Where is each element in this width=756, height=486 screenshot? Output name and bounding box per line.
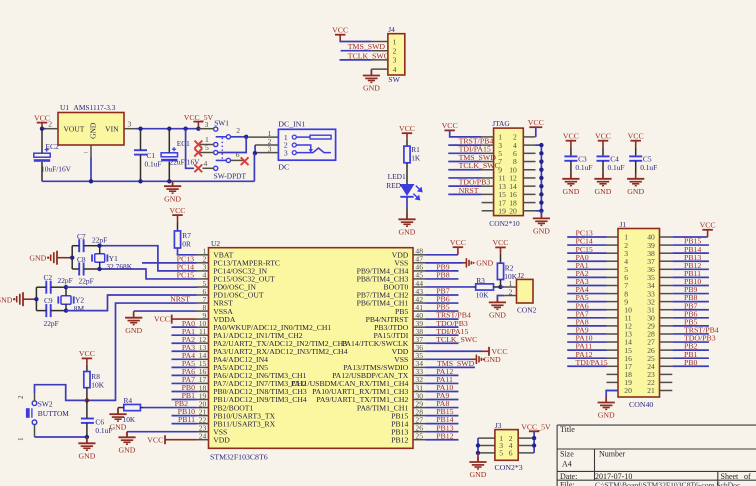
svg-text:6: 6 [509, 449, 513, 458]
J1 pin 31 [660, 309, 673, 311]
node J3 left bus pin3 [476, 443, 480, 447]
J1 pin 26 [660, 349, 673, 351]
node JTAG bus row 9 [539, 200, 543, 204]
U2 pin 29 (PA8/TIM1_CH1) [413, 407, 426, 409]
JTAG pin 2 stub [523, 136, 535, 138]
wire PC13 (J1) [567, 236, 606, 238]
wire PB10 (J1) [672, 284, 709, 286]
J1 pin 18 [607, 373, 619, 375]
wire J4 pin 4 to ground [370, 69, 372, 75]
svg-text:2017-07-10: 2017-07-10 [595, 472, 632, 481]
J4 pin 3 [371, 59, 388, 61]
svg-text:TCLK_SWC: TCLK_SWC [459, 161, 500, 170]
J1 pin 1 [607, 236, 619, 238]
wire JTAG ground bus [536, 145, 542, 211]
svg-text:VDD: VDD [213, 435, 230, 444]
node JTAG bus row 2 [539, 143, 543, 147]
wire DC+ to contact 5 [218, 137, 246, 153]
svg-text:VCC: VCC [628, 132, 644, 141]
U2 pin 13 (PA3/UART2_RX/ADC12_IN3/TIM2_CH4) [197, 350, 209, 352]
U2 pin 39 (PB3/JTDO) [413, 326, 426, 328]
svg-text:2: 2 [48, 119, 52, 128]
wire U2 pin 35 (VSS) to ground [426, 358, 472, 360]
svg-text:3: 3 [284, 148, 288, 157]
U2 pin 44 (BOOT0) [413, 286, 426, 288]
wire PC13 [142, 262, 197, 264]
svg-text:0.1uF: 0.1uF [575, 163, 592, 172]
J1 pin 34 [660, 285, 673, 287]
U2 pin 46 (PB9/TIM4_CH4) [413, 270, 426, 272]
SW2 bottom pin lead [34, 425, 36, 437]
ground (VSS) [126, 432, 128, 438]
svg-text:VCC: VCC [442, 121, 458, 130]
U2 pin 1 (VBAT) [197, 254, 209, 256]
svg-text:10uF/16V: 10uF/16V [41, 164, 72, 173]
node EC1 bottom junction [167, 179, 171, 183]
wire Y2 left rail [35, 287, 37, 310]
U1 GND pin stub [90, 145, 92, 157]
wire R1 to LED1 [406, 163, 408, 184]
U2 pin 3 (PC14/OSC32_IN) [197, 270, 209, 272]
J1 pin 8 [607, 293, 619, 295]
wire PB9 (J1) [672, 293, 709, 295]
wire JTAG left row 4 [448, 161, 481, 163]
U2 pin 19 (PB1/ADC12_IN9/TIM3_CH4) [197, 399, 209, 401]
SW1 common 6 [226, 158, 230, 162]
wire PA11 (J1) [567, 349, 606, 351]
wire PB6 (J1) [672, 317, 709, 319]
U2 pin 48 (VDD) [413, 254, 426, 256]
J1 pin 29 [660, 325, 673, 327]
wire J3 right bus [533, 431, 535, 453]
svg-text:GND: GND [88, 122, 97, 139]
wire PA0 (J1) [567, 260, 606, 262]
svg-text:GND: GND [476, 259, 493, 268]
svg-text:32.768K: 32.768K [106, 262, 132, 271]
svg-text:GND: GND [595, 187, 612, 196]
wire PB9 (U2 right) [426, 270, 459, 272]
node SW feed junction [183, 127, 187, 131]
svg-text:VCC: VCC [332, 26, 348, 35]
wire PC14 (J1) [567, 244, 606, 246]
svg-text:GND: GND [125, 326, 142, 335]
SW1 mechanical link (dotted) [221, 139, 223, 159]
U2 pin 38 (PA15/JTDI) [413, 334, 426, 336]
svg-text:U2: U2 [211, 239, 220, 248]
svg-text:C8: C8 [77, 255, 86, 264]
J1 pin 38 [660, 252, 673, 254]
wire TRST/PB4 (U2 right) [426, 318, 459, 320]
wire C3 to ground [570, 161, 572, 179]
U2 pin 2 (PC13/TAMPER-RTC) [197, 262, 209, 264]
wire R3 leads [473, 286, 476, 288]
wire VCC to J4 pin 1 [340, 40, 371, 42]
wire TRST/PB4 (J1) [672, 333, 709, 335]
svg-text:VCC: VCC [700, 221, 716, 230]
svg-text:J3: J3 [495, 421, 502, 430]
wire PA7 [172, 382, 197, 384]
U2 pin 17 (PA7/ADC12_IN7/TIM3_CH2) [197, 382, 209, 384]
wire EC2 bottom lead [41, 162, 43, 182]
svg-text:VCC: VCC [563, 132, 579, 141]
svg-text:10K: 10K [476, 290, 489, 299]
wire C5 to ground [635, 161, 637, 179]
svg-text:Sheet: Sheet [721, 472, 740, 481]
svg-text:1K: 1K [411, 153, 421, 162]
U2 pin 4 (PC15/OSC32_OUT) [197, 278, 209, 280]
J4 pin 2 [371, 50, 388, 52]
svg-text:VCC: VCC [399, 124, 415, 133]
ground (J2) [496, 297, 498, 303]
J1 pin 37 [660, 260, 673, 262]
wire PB7 (U2 right) [426, 294, 459, 296]
wire PA4 [172, 358, 197, 360]
svg-text:2: 2 [18, 395, 25, 399]
wire EC1 bottom lead [168, 162, 170, 182]
wire VCC to R1 [406, 140, 408, 146]
wire PB2 to R4 [143, 407, 197, 409]
SW1 common 6 stub (unused) [231, 159, 247, 161]
regulator U1 body [58, 113, 124, 146]
JTAG pin 14 stub [523, 185, 535, 187]
JTAG pin 7 stub [482, 161, 494, 163]
svg-text:CON2*10: CON2*10 [489, 219, 520, 228]
node Y2 rail gnd junction [34, 297, 38, 301]
JTAG pin 1 stub [482, 136, 494, 138]
node Y1 bottom junction [97, 267, 101, 271]
wire PA6 (J1) [567, 309, 606, 311]
DC_IN1 pin3 switch contact [296, 148, 331, 153]
svg-text:C:\STM\Board\STM32F103C8T6-cor: C:\STM\Board\STM32F103C8T6-core.SchDoc [595, 481, 741, 486]
wire VCC to JTAG pin 1 [450, 130, 482, 137]
U2 pin 26 (PB13) [413, 431, 426, 433]
node Y2 top junction [64, 285, 68, 289]
ground (LED1) [406, 214, 408, 220]
J1 pin 39 [660, 244, 673, 246]
svg-text:TCLK_SWC: TCLK_SWC [348, 51, 389, 60]
wire DC ground down to rail [253, 153, 255, 181]
wire TMS_SWD (U2) [426, 366, 475, 368]
svg-text:VCC: VCC [492, 238, 508, 247]
svg-text:VCC: VCC [450, 238, 466, 247]
node EC1 top junction [167, 127, 171, 131]
JTAG pin 11 stub [482, 177, 494, 179]
svg-text:J2: J2 [518, 271, 525, 280]
node JTAG bus row 10 [539, 209, 543, 213]
wire PB10 [172, 415, 197, 417]
title block frame [557, 425, 756, 486]
svg-text:20: 20 [509, 206, 517, 215]
svg-text:C2: C2 [44, 273, 53, 282]
wire PB7 (J1) [672, 309, 709, 311]
DC_IN1 pin 2 contact circle [292, 143, 296, 147]
wire PB14 (U2 right) [426, 423, 459, 425]
svg-text:C1: C1 [147, 151, 156, 160]
svg-text:0.1uF: 0.1uF [640, 163, 657, 172]
svg-text:CON2*3: CON2*3 [495, 463, 523, 472]
wire PB5 (U2 right) [426, 310, 459, 312]
svg-text:GND: GND [533, 227, 550, 236]
crystal Y2 [58, 296, 73, 304]
ground (Y2, rotated) [22, 292, 24, 306]
svg-text:JTAG: JTAG [492, 119, 510, 128]
svg-text:1: 1 [18, 438, 25, 441]
svg-text:File:: File: [560, 481, 575, 486]
wire VCC to C5 [635, 147, 637, 156]
DC_IN1 pin 3 contact circle [292, 151, 296, 155]
U2 pin 22 (PB11/USART3_RX) [197, 423, 209, 425]
resistor R1 [404, 146, 410, 163]
U2 pin 24 (VDD) [197, 439, 209, 441]
svg-text:19: 19 [498, 206, 506, 215]
wire J1 pin 20 to ground [605, 390, 607, 392]
svg-text:GND: GND [164, 194, 181, 203]
ground (J4 pin4) [370, 70, 372, 76]
wire J3 left bus [477, 438, 479, 453]
svg-text:Date:: Date: [560, 472, 577, 481]
svg-text:21: 21 [647, 386, 655, 395]
U2 pin 28 (PB15) [413, 415, 426, 417]
SW1 lever A [216, 136, 227, 138]
wire PA3 (J1) [567, 284, 606, 286]
wire PB6 (U2 right) [426, 302, 459, 304]
svg-text:RED: RED [386, 181, 401, 190]
wire TDI/PA15 (J1) [567, 365, 606, 367]
J1 pin 21 [660, 390, 673, 392]
wire J2 pin 2 to ground [497, 296, 504, 301]
node R3/R2/J2 junction [498, 285, 502, 289]
wire Y2 top to U2 pin 5 [66, 286, 197, 288]
J1 pin 24 [660, 365, 673, 367]
wire C2 leads [36, 286, 46, 288]
ground (R4) [117, 409, 119, 415]
J2 pin 1 [504, 286, 516, 288]
wire VCC_5V rail to switch throw 3 [198, 128, 213, 130]
ground (Y1, rotated) [56, 251, 58, 265]
J1 pin 4 [607, 260, 619, 262]
svg-text:R3: R3 [476, 276, 485, 285]
wire PA11 (U2 right) [426, 382, 459, 384]
wire VCC to R7 [177, 222, 179, 231]
JTAG pin 4 stub [523, 144, 535, 146]
svg-text:J1: J1 [620, 220, 627, 229]
svg-text:3: 3 [205, 120, 209, 129]
wire C8 leads [72, 268, 79, 270]
J1 pin 32 [660, 301, 673, 303]
J3 pin 5 [478, 452, 495, 454]
ground (pin35, rotated) [475, 355, 477, 364]
svg-text:VCC: VCC [528, 118, 544, 127]
JTAG pin 15 stub [482, 193, 494, 195]
node C1 top junction [138, 127, 142, 131]
wire PA10 (J1) [567, 341, 606, 343]
wire Y2 bottom to U2 pin 6 [66, 295, 197, 311]
svg-text:J4: J4 [388, 25, 395, 34]
wire PB8 (J1) [672, 301, 709, 303]
J1 pin 15 [607, 349, 619, 351]
svg-text:Title: Title [560, 425, 575, 434]
svg-text:VCC: VCC [154, 315, 170, 324]
JTAG pin 9 stub [482, 169, 494, 171]
ground (SW2/C6) [86, 438, 88, 444]
svg-text:20: 20 [624, 386, 632, 395]
J1 pin 35 [660, 276, 673, 278]
svg-text:GND: GND [119, 446, 136, 455]
resistor R3 [476, 284, 494, 290]
U2 pin 31 (PA10/UART1_RX/TIM1_CH3) [413, 391, 426, 393]
resistor R8 [84, 372, 90, 388]
svg-text:R4: R4 [124, 396, 133, 405]
svg-text:of: of [744, 472, 751, 481]
J1 pin 10 [607, 309, 619, 311]
wire PB12 (J1) [672, 268, 709, 270]
wire VCC to R2 [500, 254, 502, 263]
wire PA9 (U2 right) [426, 399, 459, 401]
U2 pin 8 (VSSA) [197, 310, 209, 312]
J1 pin 13 [607, 333, 619, 335]
wire junction to SW2 [35, 385, 87, 401]
DC_IN1 pin 3 stub [255, 152, 278, 154]
ground (main rail) [172, 181, 174, 187]
DC_IN1 pin 2 stub [255, 144, 278, 146]
JTAG pin 19 stub [482, 210, 494, 212]
ground (VSSA) [133, 312, 135, 318]
J1 pin 2 [607, 244, 619, 246]
wire TDO/PB3 (U2 right) [426, 326, 459, 328]
svg-text:CON40: CON40 [629, 400, 653, 409]
node J3 left bus pin5 [476, 451, 480, 455]
U2 pin 6 (PD1/OSC_OUT) [197, 294, 209, 296]
node DC ground junction [253, 151, 257, 155]
wire VCC_5V rail (U1 pin3 to SW1) [136, 128, 198, 130]
J3 pin 6 [518, 452, 534, 454]
svg-text:GND: GND [627, 187, 644, 196]
svg-text:STM32F103C8T6: STM32F103C8T6 [210, 452, 268, 461]
svg-text:2: 2 [509, 287, 513, 296]
ground (JTAG) [540, 213, 542, 219]
svg-text:10K: 10K [91, 381, 104, 390]
switch SW2 (button) [32, 401, 37, 406]
svg-text:3: 3 [268, 144, 272, 153]
node NRST junction [85, 398, 89, 402]
svg-text:NRST: NRST [459, 186, 479, 195]
ground (C3) [570, 173, 572, 179]
svg-text:BUTTOM: BUTTOM [38, 409, 69, 418]
wire PB13 (J1) [672, 260, 709, 262]
U2 pin 20 (PB2/BOOT1) [197, 407, 209, 409]
node U1 gnd rail junction [89, 179, 93, 183]
SW1 contact 4 [214, 166, 218, 170]
wire J1 pin 40 to VCC [672, 236, 707, 238]
connector J1 body [618, 229, 660, 398]
connector JTAG body [494, 128, 524, 216]
svg-text:VCC: VCC [147, 435, 163, 444]
wire Y1 top lead [99, 246, 101, 254]
ground (J1) [605, 397, 607, 403]
wire U2 pin 23 (VSS) to ground [127, 431, 197, 433]
J1 pin 33 [660, 293, 673, 295]
svg-text:VOUT: VOUT [64, 125, 85, 134]
ground (C4) [602, 173, 604, 179]
U2 pin 41 (PB5) [413, 310, 426, 312]
J3 pin 4 [518, 445, 534, 447]
U2 pin 18 (PB0/ADC12_IN8/TIM3_CH3) [197, 391, 209, 393]
svg-text:EC2: EC2 [46, 142, 59, 151]
svg-text:2: 2 [393, 47, 397, 56]
JTAG pin 5 stub [482, 152, 494, 154]
JTAG pin 13 stub [482, 185, 494, 187]
J1 pin 5 [607, 268, 619, 270]
node Y1 rail gnd junction [70, 256, 74, 260]
wire TDO/PB3 (J1) [672, 341, 709, 343]
svg-text:22pF: 22pF [58, 276, 73, 285]
wire PB15 (J1) [672, 244, 709, 246]
U2 pin 5 (PD0/OSC_IN) [197, 286, 209, 288]
svg-text:TMS_SWD: TMS_SWD [348, 42, 386, 51]
node U1 pin2 / EC2 junction [40, 127, 44, 131]
wire C1 top lead [140, 129, 142, 151]
U2 pin 32 (PA11/USBDM/CAN_RX/TIM1_CH4) [413, 382, 426, 384]
wire PC14 from Y1 [100, 246, 197, 271]
wire PA3 [172, 350, 197, 352]
JTAG pin 20 stub [523, 210, 535, 212]
resistor R4 [124, 404, 141, 410]
J1 pin 23 [660, 373, 673, 375]
wire C6 top lead [86, 400, 88, 418]
wire JTAG left row 5 [448, 169, 481, 171]
wire PB5 (J1) [672, 325, 709, 327]
U2 pin 11 (PA1/ADC12_IN1/TIM_CH2) [197, 334, 209, 336]
svg-text:GND: GND [0, 295, 13, 304]
J4 pin 1 [371, 41, 388, 43]
wire TCLK_SWC (U2 right) [426, 342, 459, 344]
J4 pin 4 [371, 68, 388, 70]
svg-text:GND: GND [489, 311, 506, 320]
wire DC_IN pin2 to pin3 (ground) [254, 145, 256, 153]
J1 pin 27 [660, 341, 673, 343]
U2 pin 37 (PA14/JTCK/SWCLK) [413, 342, 426, 344]
node JTAG bus row 3 [539, 151, 543, 155]
wire VCC to C3 [570, 147, 572, 156]
capacitor C8 [78, 263, 80, 276]
U2 pin 43 (PB7/TIM4_CH2) [413, 294, 426, 296]
wire R2 bottom lead [500, 280, 502, 287]
wire PB15 (U2 right) [426, 415, 459, 417]
wire U1 pin2 to VCC/EC2 [42, 128, 46, 130]
U2 pin 27 (PB14) [413, 423, 426, 425]
wire NRST [87, 303, 197, 400]
J1 pin 22 [660, 381, 673, 383]
electrolytic capacitor EC2 [34, 153, 50, 157]
wire PA12 (J1) [567, 357, 606, 359]
wire SW2 bottom to C6 bottom [35, 436, 87, 438]
svg-text:0.1uF: 0.1uF [608, 163, 625, 172]
wire Y1 bottom lead [99, 262, 101, 269]
wire C6 bottom to ground [86, 437, 88, 443]
wire U2 pin 36 (VDD) to VCC [426, 350, 483, 352]
svg-text:SW1: SW1 [214, 119, 229, 128]
wire PA5 [172, 366, 197, 368]
J2 pin 2 [504, 295, 516, 297]
wire U1 GND pin down to ground rail [90, 157, 92, 181]
JTAG pin 12 stub [523, 177, 535, 179]
wire PB8 (U2 right) [426, 278, 459, 280]
connector J4 body [388, 34, 405, 75]
U2 pin 15 (PA5/ADC12_IN5) [197, 366, 209, 368]
wire PA5 (J1) [567, 301, 606, 303]
U2 pin 33 (PA12/USBDP/CAN_TX) [413, 374, 426, 376]
wire TDI/PA15 (U2 right) [426, 334, 459, 336]
